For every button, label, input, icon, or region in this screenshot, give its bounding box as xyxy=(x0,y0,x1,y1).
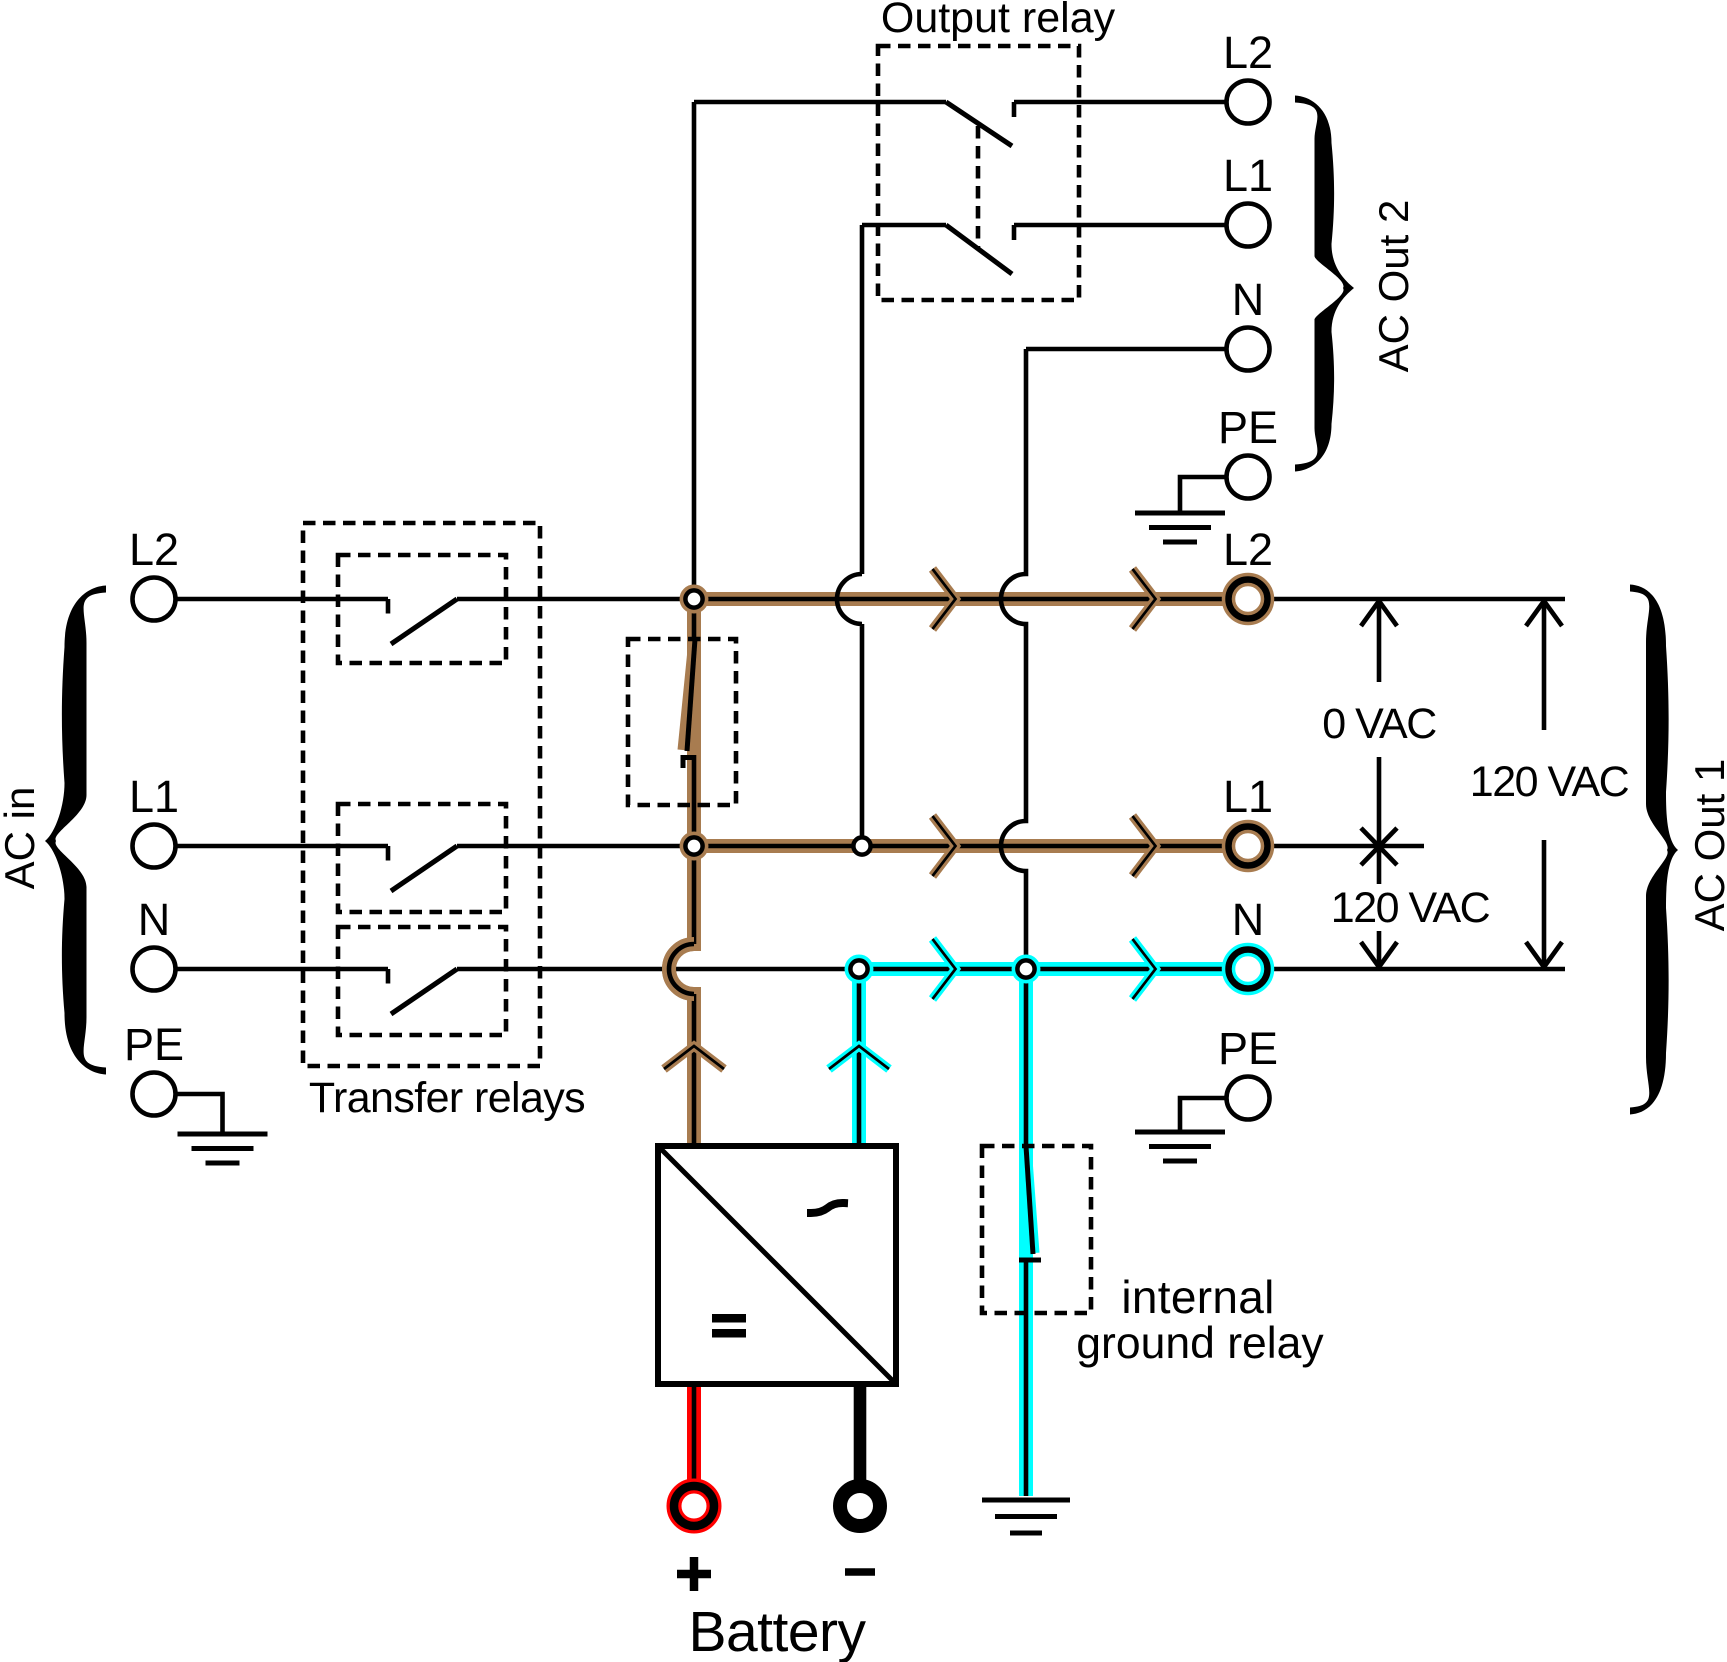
svg-text:L2: L2 xyxy=(129,524,179,575)
svg-text:AC in: AC in xyxy=(0,787,43,890)
svg-text:L1: L1 xyxy=(1223,150,1273,201)
svg-text:0 VAC: 0 VAC xyxy=(1322,700,1436,748)
svg-text:Transfer relays: Transfer relays xyxy=(309,1074,585,1122)
svg-text:N: N xyxy=(1232,894,1265,945)
svg-text:L2: L2 xyxy=(1223,524,1273,575)
svg-text:N: N xyxy=(138,894,171,945)
svg-text:Output relay: Output relay xyxy=(881,0,1116,42)
svg-text:internal: internal xyxy=(1121,1271,1274,1323)
svg-text:PE: PE xyxy=(1218,402,1278,453)
svg-text:N: N xyxy=(1232,274,1265,325)
svg-text:120 VAC: 120 VAC xyxy=(1331,884,1490,932)
svg-text:Battery: Battery xyxy=(688,1600,866,1662)
svg-text:AC Out 2: AC Out 2 xyxy=(1370,200,1417,373)
svg-text:PE: PE xyxy=(1218,1023,1278,1074)
svg-text:L1: L1 xyxy=(129,771,179,822)
svg-text:L2: L2 xyxy=(1223,27,1273,78)
svg-text:120 VAC: 120 VAC xyxy=(1470,758,1629,806)
svg-text:L1: L1 xyxy=(1223,771,1273,822)
svg-text:ground relay: ground relay xyxy=(1076,1319,1324,1368)
svg-text:AC Out 1: AC Out 1 xyxy=(1686,759,1727,932)
svg-text:PE: PE xyxy=(124,1019,184,1070)
